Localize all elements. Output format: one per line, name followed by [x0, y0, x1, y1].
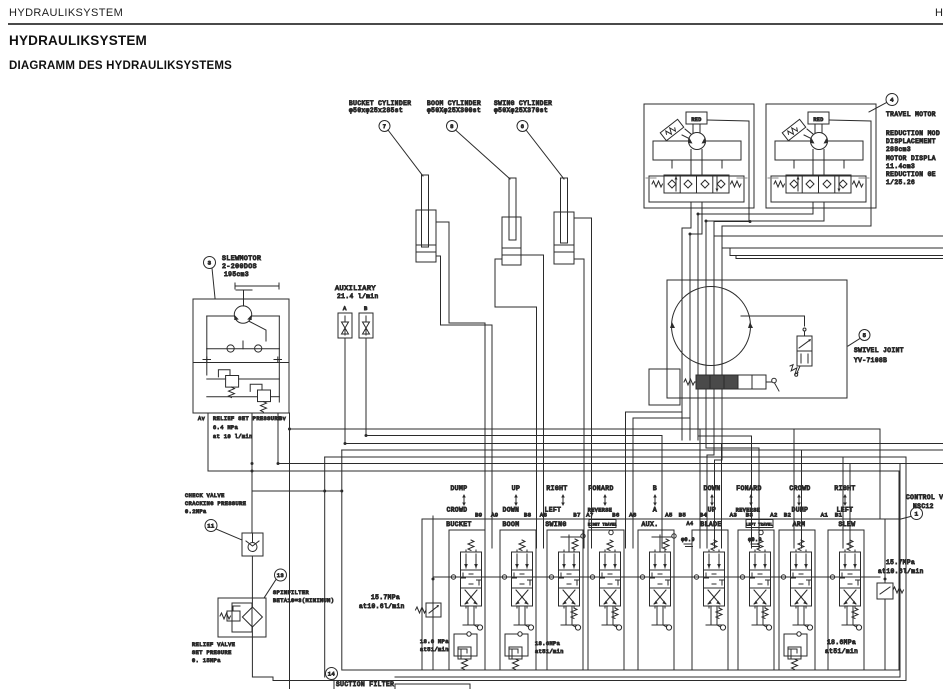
pilot port BOOM [528, 625, 533, 630]
outlet relief valve [877, 583, 893, 599]
wire swivel drain 2 [715, 440, 723, 548]
swivel pilot valve [797, 336, 812, 366]
svg-text:CHECK VALVE: CHECK VALVE [185, 493, 225, 499]
valve spring bottom RIGHTTRAVEL [612, 608, 618, 619]
svg-text:ARM: ARM [793, 521, 806, 528]
slew motor box [193, 299, 289, 413]
svg-text:RIGHT TRAVEL: RIGHT TRAVEL [588, 523, 617, 527]
bank bottom tank line [343, 669, 899, 671]
svg-text:15.7MPa: 15.7MPa [371, 594, 400, 601]
pilot port RIGHTTRAVEL [616, 625, 621, 630]
slew makeup check valve left [227, 345, 234, 352]
wire swivel to right travel A [633, 418, 690, 548]
svg-text:A6: A6 [629, 512, 636, 519]
svg-text:SWIVEL JOINT: SWIVEL JOINT [854, 347, 904, 354]
valve spring bottom SLEW [852, 608, 858, 619]
port relief valve BOOM [505, 632, 528, 670]
bus line mid2 [342, 449, 943, 451]
svg-text:B9: B9 [475, 512, 482, 519]
wire slew sec A drop [849, 464, 851, 549]
travel motor right U-right [766, 104, 876, 208]
balloon 11 check valve [205, 520, 217, 532]
svg-text:13: 13 [277, 573, 284, 579]
valve spool BLADE [711, 540, 717, 551]
valve spool RIGHTTRAVEL [609, 530, 613, 534]
svg-text:14: 14 [328, 671, 335, 677]
wire swivel pilot [741, 316, 805, 326]
svg-text:B6: B6 [612, 512, 619, 519]
bus line mid3 [325, 457, 906, 560]
svg-text:11: 11 [207, 523, 214, 529]
svg-text:BETA10=3(MINIMUM): BETA10=3(MINIMUM) [273, 598, 334, 604]
wire right motor A [698, 208, 813, 440]
balloon 3 slew motor [204, 257, 216, 269]
wire arm B drop [793, 429, 795, 548]
balloon 1 control valve [911, 508, 923, 520]
svg-text:RELIEF SET PRESSURE: RELIEF SET PRESSURE [213, 416, 282, 422]
spin filter relief valve [227, 611, 240, 621]
wire swivel to left travel A [706, 440, 759, 548]
svg-text:TRAVEL MOTOR: TRAVEL MOTOR [886, 111, 936, 118]
svg-text:A7: A7 [586, 512, 593, 519]
port relief valve BUCKET [454, 632, 477, 670]
slew motor gauge bracket [235, 285, 279, 287]
slew relief valve Bv [258, 390, 271, 402]
balloon 14 suction filter [326, 668, 338, 680]
svg-text:A3: A3 [730, 512, 737, 519]
wire boom rod side [495, 259, 537, 548]
spin filter box [218, 598, 266, 637]
svg-text:B1: B1 [835, 512, 843, 519]
wire swivel to right edge 2 [722, 208, 943, 248]
svg-text:195cm3: 195cm3 [224, 271, 249, 278]
svg-text:RIGHT: RIGHT [834, 485, 855, 492]
svg-text:MOTOR DISPLA: MOTOR DISPLA [886, 155, 936, 162]
svg-text:CROWD: CROWD [447, 507, 468, 514]
wire swivel to left travel B [698, 436, 752, 548]
svg-text:φ50Xφ25X300st: φ50Xφ25X300st [427, 107, 481, 114]
svg-text:UP: UP [708, 507, 716, 514]
pilot port AUX. [666, 625, 671, 630]
svg-text:DOWN: DOWN [503, 507, 520, 514]
svg-text:REDUCTION GE: REDUCTION GE [886, 171, 936, 178]
swing cylinder [561, 178, 568, 243]
svg-text:YV-7108B: YV-7108B [854, 357, 887, 364]
valve section frame LEFTTRAVEL [737, 530, 739, 670]
wire swivel feed 5 [713, 236, 715, 440]
junction dots [749, 220, 752, 223]
svg-text:AUXILIARY: AUXILIARY [335, 285, 376, 293]
svg-text:SLEW: SLEW [838, 521, 855, 528]
leader to travel motor [869, 103, 887, 113]
svg-text:A8: A8 [540, 512, 547, 519]
svg-text:B: B [364, 305, 368, 312]
check valve symbol [242, 533, 263, 556]
orifice symbol blade [684, 543, 691, 545]
slew motor circle [234, 306, 251, 323]
svg-text:BOOM CYLINDER: BOOM CYLINDER [427, 100, 481, 107]
valve spring bottom BLADE [716, 608, 722, 619]
svg-text:NSC12: NSC12 [913, 503, 934, 510]
port relief valve ARM [784, 632, 807, 670]
svg-text:at51/min: at51/min [825, 648, 858, 655]
leader to boom cylinder [456, 130, 511, 179]
svg-text:4: 4 [890, 97, 894, 104]
wire aux A [345, 338, 655, 444]
bucket cylinder [422, 175, 429, 247]
svg-text:at51/min: at51/min [420, 647, 449, 653]
svg-text:B4: B4 [700, 512, 707, 519]
svg-text:at51/min: at51/min [535, 649, 564, 655]
valve spool BUCKET [468, 540, 474, 551]
wire swivel to right edge 1 [714, 208, 943, 236]
svg-text:DISPLACEMENT: DISPLACEMENT [886, 138, 936, 145]
pilot port BUCKET [477, 625, 482, 630]
gallery check valves [451, 575, 455, 579]
wire left motor B [690, 208, 702, 440]
svg-text:Bv: Bv [279, 416, 286, 422]
wire arm A drop [801, 450, 803, 548]
valve bank arrows [462, 494, 466, 506]
svg-text:LEFT TRAVEL: LEFT TRAVEL [746, 523, 773, 527]
bus line P2 [289, 429, 291, 689]
pilot port SWING [575, 625, 580, 630]
tank return line upper [395, 464, 900, 678]
travel motor left U-left [644, 104, 754, 208]
valve section frame BUCKET [448, 530, 450, 670]
svg-text:0.2MPa: 0.2MPa [185, 509, 207, 515]
svg-text:B3: B3 [746, 512, 753, 519]
svg-text:DUMP: DUMP [450, 485, 467, 492]
slew motor internal lines [250, 322, 267, 342]
svg-text:B7: B7 [573, 512, 580, 519]
leader to slew motor [212, 268, 215, 298]
wire boom head side [521, 255, 544, 548]
pilot port LEFTTRAVEL [766, 625, 771, 630]
svg-text:A1: A1 [821, 512, 829, 519]
wire blade B drop [699, 429, 701, 548]
svg-text:2-200DOS: 2-200DOS [222, 263, 257, 270]
header rule [8, 23, 943, 25]
valve spool ARM [798, 540, 804, 551]
swivel joint sub box [649, 369, 680, 405]
bus line pump [252, 490, 342, 492]
svg-text:SWING: SWING [545, 521, 566, 528]
svg-text:SWING CYLINDER: SWING CYLINDER [494, 100, 552, 107]
wire swivel to right edge 4 [736, 256, 943, 259]
wire swivel to right edge 3 [730, 248, 943, 256]
svg-text:21.4 l/min: 21.4 l/min [337, 293, 379, 300]
wire bucket rod side [436, 222, 485, 548]
valve section frame ARM [778, 530, 780, 670]
svg-text:1/25.26: 1/25.26 [886, 179, 915, 186]
svg-text:RELIEF VALVE: RELIEF VALVE [192, 642, 235, 648]
svg-text:B8: B8 [524, 512, 531, 519]
svg-text:18.6 MPa: 18.6 MPa [420, 639, 449, 645]
slew makeup check valve right [255, 345, 262, 352]
svg-text:11.4cm3: 11.4cm3 [886, 163, 915, 170]
svg-text:BUCKET CYLINDER: BUCKET CYLINDER [349, 100, 411, 107]
wire blade A drop [721, 444, 723, 549]
spin filter element [242, 607, 262, 627]
valve spool AUX. [659, 535, 661, 551]
valve section frame RIGHTTRAVEL [587, 530, 589, 670]
svg-text:SET PRESURE: SET PRESURE [192, 650, 232, 656]
bus line mid1 [345, 443, 943, 445]
valve section frame SWING [546, 530, 548, 670]
balloon 8 boom cylinder [447, 121, 458, 132]
page header right (clipped) [935, 7, 943, 19]
balloon 5 swivel joint [859, 330, 870, 341]
page header small title [9, 7, 123, 19]
svg-text:288cm3: 288cm3 [886, 146, 911, 153]
svg-text:REDUCTION MOD: REDUCTION MOD [886, 130, 940, 137]
svg-text:DUMP: DUMP [792, 507, 809, 514]
svg-text:18.6MPa: 18.6MPa [827, 639, 856, 646]
leader to spin filter [264, 580, 276, 599]
valve section frame SLEW [827, 530, 829, 670]
svg-text:FONARD: FONARD [588, 485, 614, 492]
wire pump drop 2 [342, 450, 422, 670]
svg-text:FONARD: FONARD [736, 485, 762, 492]
aux port B [359, 313, 373, 338]
wire swivel to right travel B [681, 398, 683, 440]
leader to check valve [216, 529, 242, 540]
pressure gallery line [433, 576, 880, 578]
balloon 13 spin filter [275, 569, 287, 581]
boom cylinder [509, 178, 516, 240]
svg-text:A9: A9 [491, 512, 498, 519]
aux port A [338, 313, 352, 338]
svg-text:CRACKING PRESSURE: CRACKING PRESSURE [185, 501, 246, 507]
svg-text:AUX.: AUX. [641, 521, 658, 528]
svg-text:8: 8 [450, 124, 454, 130]
svg-text:UP: UP [512, 485, 521, 492]
leader to swivel joint [848, 339, 860, 347]
wire bucket head side [436, 256, 492, 548]
svg-text:φ50xφ25x285st: φ50xφ25x285st [349, 107, 403, 114]
balloon 7 bucket cylinder [379, 121, 390, 132]
svg-text:A2: A2 [770, 512, 777, 519]
valve section frame AUX. [637, 530, 639, 670]
svg-text:at10.6l/min: at10.6l/min [359, 603, 405, 610]
tank return line lower [273, 560, 906, 681]
balloon 6 swing cylinder [517, 121, 528, 132]
valve spool SWING [568, 535, 570, 551]
swivel joint circle [672, 287, 751, 366]
wire check to filter [251, 556, 253, 607]
svg-text:BUCKET: BUCKET [446, 521, 472, 528]
svg-text:RIGHT: RIGHT [546, 485, 567, 492]
leader to swing cylinder [526, 130, 564, 179]
svg-text:B2: B2 [784, 512, 791, 519]
wire aux B [366, 338, 662, 548]
svg-text:6.4 MPa: 6.4 MPa [213, 425, 238, 431]
bus line T1 [278, 413, 943, 464]
svg-text:CROWD: CROWD [789, 485, 810, 492]
pilot port SLEW [856, 625, 861, 630]
svg-text:φ0.9: φ0.9 [681, 537, 695, 543]
svg-text:A5: A5 [665, 512, 672, 519]
svg-text:BOOM: BOOM [502, 521, 519, 528]
svg-text:18.6MPa: 18.6MPa [535, 641, 560, 647]
swivel spool [696, 375, 738, 389]
svg-text:SUCTION FILTER: SUCTION FILTER [336, 681, 394, 688]
svg-text:1: 1 [915, 511, 919, 518]
svg-text:SPINFILTER: SPINFILTER [273, 590, 309, 596]
valve spool BOOM [519, 540, 525, 551]
wire slew feed drop [251, 413, 253, 533]
svg-text:at 10 l/min: at 10 l/min [213, 434, 253, 440]
control valve bank box [422, 519, 899, 670]
svg-text:5: 5 [863, 333, 867, 339]
wire pump drop 1 [324, 457, 326, 677]
inlet line [432, 516, 434, 670]
svg-text:B5: B5 [679, 512, 686, 519]
svg-text:15.7MPa: 15.7MPa [886, 559, 915, 566]
valve spool SLEW [847, 540, 853, 551]
orifice symbol left travel [751, 543, 758, 545]
pilot port ARM [807, 625, 812, 630]
svg-text:A: A [343, 305, 347, 312]
wire left motor A [682, 208, 691, 440]
valve spring bottom LEFTTRAVEL [762, 608, 768, 619]
bus line T2 [208, 413, 899, 519]
inlet compensator [426, 603, 441, 617]
svg-text:A: A [653, 507, 657, 514]
svg-text:B: B [653, 485, 657, 492]
main title [9, 33, 147, 48]
valve section frame BOOM [499, 530, 501, 670]
wire swivel feed 6 [721, 248, 723, 440]
swivel joint box [667, 280, 847, 398]
pilot port BLADE [720, 625, 725, 630]
valve spring bottom SWING [571, 608, 577, 619]
svg-text:3: 3 [208, 260, 212, 267]
svg-text:7: 7 [383, 124, 387, 130]
svg-text:DOWN: DOWN [703, 485, 720, 492]
wire swing rod side [574, 218, 592, 548]
wire swivel drain 1 [707, 440, 714, 548]
wire swing head side [574, 259, 584, 548]
wire slew sec B drop [842, 457, 844, 548]
valve section frame BLADE [691, 530, 693, 670]
wire right motor B [706, 208, 824, 440]
leader to bucket cylinder [388, 130, 423, 176]
leader to control valve [899, 517, 911, 520]
svg-text:at10.6l/min: at10.6l/min [878, 568, 924, 575]
subtitle [9, 60, 232, 72]
svg-text:6: 6 [521, 124, 525, 130]
svg-text:BLADE: BLADE [700, 521, 721, 528]
svg-text:CONTROL VA: CONTROL VA [906, 494, 943, 501]
valve spool LEFTTRAVEL [759, 530, 763, 534]
slew relief valve Av [226, 376, 239, 388]
svg-text:A4: A4 [687, 521, 694, 527]
balloon 4 travel motor [886, 94, 898, 106]
svg-text:SLEWMOTOR: SLEWMOTOR [222, 255, 261, 262]
suction filter box [395, 684, 470, 689]
svg-text:Av: Av [198, 416, 205, 422]
wire filter to tank [252, 627, 273, 681]
bus line P1 [290, 413, 881, 519]
svg-text:0. 15MPa: 0. 15MPa [192, 658, 221, 664]
svg-text:φ50Xφ25X370st: φ50Xφ25X370st [494, 107, 548, 114]
